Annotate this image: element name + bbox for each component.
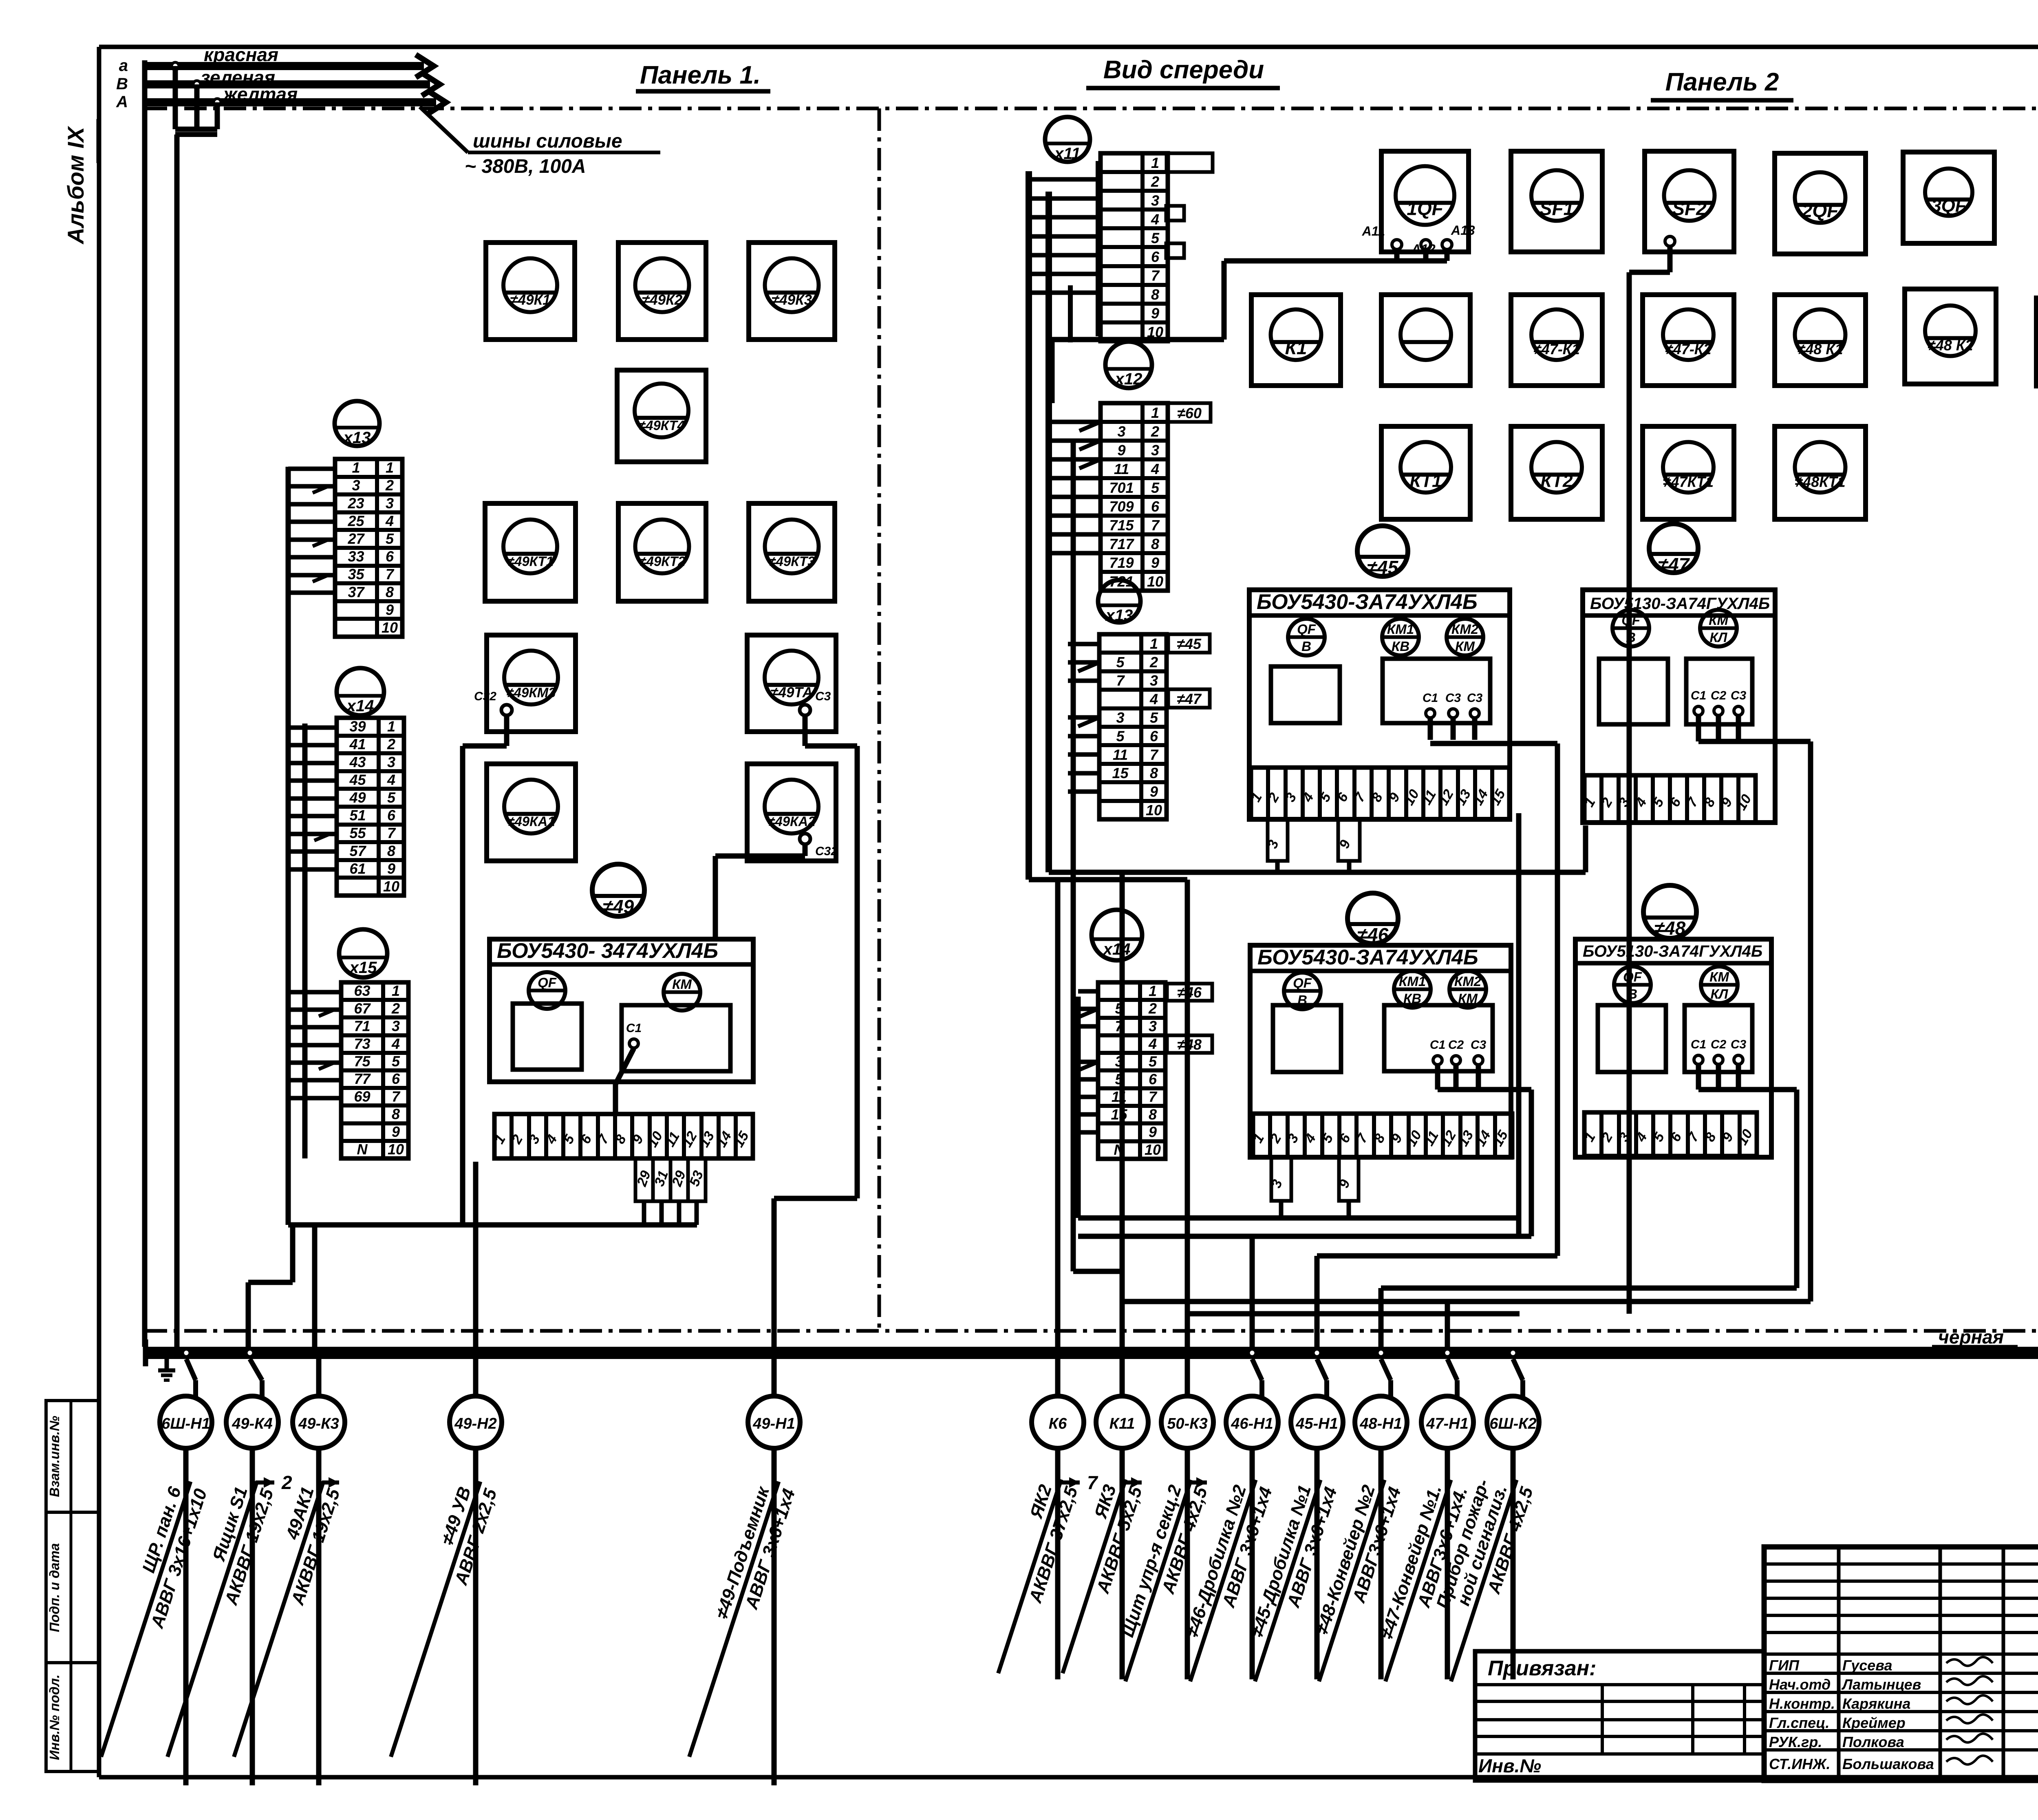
svg-text:С3: С3 xyxy=(1731,689,1747,702)
svg-text:9: 9 xyxy=(1149,1124,1157,1141)
svg-text:В: В xyxy=(1301,639,1311,654)
svg-text:57: 57 xyxy=(349,843,366,859)
svg-text:шины силовые: шины силовые xyxy=(473,130,622,152)
svg-text:701: 701 xyxy=(1109,479,1134,496)
svg-text:В: В xyxy=(116,75,128,93)
svg-text:≠49К1: ≠49К1 xyxy=(510,292,550,308)
svg-text:7: 7 xyxy=(1151,517,1160,534)
svg-text:49-Н2: 49-Н2 xyxy=(454,1415,497,1432)
svg-text:х13: х13 xyxy=(343,429,371,447)
svg-text:≠49К3: ≠49К3 xyxy=(772,292,812,308)
svg-text:46-Н1: 46-Н1 xyxy=(1231,1415,1273,1432)
svg-text:≠46: ≠46 xyxy=(1357,924,1389,945)
svg-text:49-Н1: 49-Н1 xyxy=(752,1415,795,1432)
svg-text:4: 4 xyxy=(1151,461,1159,477)
svg-text:Большакова: Большакова xyxy=(1842,1756,1934,1772)
svg-text:10: 10 xyxy=(383,878,399,895)
svg-text:≠48 К2: ≠48 К2 xyxy=(1928,337,1973,354)
svg-text:х14: х14 xyxy=(1103,940,1131,958)
svg-text:7: 7 xyxy=(1149,1088,1158,1105)
svg-text:С3: С3 xyxy=(1471,1038,1487,1052)
svg-text:6Ш-Н1: 6Ш-Н1 xyxy=(161,1415,210,1432)
svg-text:717: 717 xyxy=(1109,536,1134,552)
svg-text:С3: С3 xyxy=(1445,691,1461,705)
svg-text:75: 75 xyxy=(354,1053,371,1070)
svg-text:SF1: SF1 xyxy=(1540,198,1574,219)
svg-text:5: 5 xyxy=(1151,230,1160,247)
svg-text:БОУ5130-ЗА74ГУХЛ4Б: БОУ5130-ЗА74ГУХЛ4Б xyxy=(1590,595,1770,613)
svg-text:3: 3 xyxy=(1151,442,1159,459)
svg-text:47-Н1: 47-Н1 xyxy=(1426,1415,1469,1432)
svg-text:5: 5 xyxy=(1150,709,1158,726)
svg-text:61: 61 xyxy=(349,860,366,877)
svg-text:1: 1 xyxy=(386,459,394,476)
svg-text:ГИП: ГИП xyxy=(1769,1657,1800,1674)
svg-text:9: 9 xyxy=(1150,783,1158,800)
svg-text:С32: С32 xyxy=(474,690,496,703)
svg-text:Гусева: Гусева xyxy=(1842,1657,1892,1674)
svg-text:БОУ5430-ЗА74УХЛ4Б: БОУ5430-ЗА74УХЛ4Б xyxy=(1257,590,1478,614)
svg-text:С1: С1 xyxy=(1430,1038,1445,1052)
svg-text:8: 8 xyxy=(1151,286,1159,303)
svg-text:~ 380В, 100А: ~ 380В, 100А xyxy=(465,156,586,177)
svg-text:9: 9 xyxy=(1151,305,1159,322)
svg-text:≠48: ≠48 xyxy=(1654,918,1686,939)
svg-text:≠47: ≠47 xyxy=(1177,690,1202,707)
svg-text:Полкова: Полкова xyxy=(1842,1734,1904,1750)
svg-text:5: 5 xyxy=(1116,654,1125,671)
svg-text:8: 8 xyxy=(386,584,394,600)
svg-text:1QF: 1QF xyxy=(1407,198,1444,219)
svg-text:6: 6 xyxy=(387,807,396,824)
svg-text:2: 2 xyxy=(1151,423,1159,440)
svg-text:1: 1 xyxy=(1151,154,1159,171)
svg-text:≠45: ≠45 xyxy=(1177,635,1202,652)
svg-text:1: 1 xyxy=(352,459,360,476)
svg-text:≠49КТ3: ≠49КТ3 xyxy=(768,554,815,569)
svg-text:КМ: КМ xyxy=(1709,613,1729,628)
svg-text:6: 6 xyxy=(1151,249,1160,265)
svg-text:11: 11 xyxy=(1113,746,1128,763)
svg-text:КМ1: КМ1 xyxy=(1399,974,1426,989)
svg-text:≠49КТ2: ≠49КТ2 xyxy=(639,554,686,569)
svg-text:РУК.гр.: РУК.гр. xyxy=(1769,1734,1822,1750)
svg-text:9: 9 xyxy=(1151,554,1159,571)
svg-text:709: 709 xyxy=(1109,498,1134,515)
svg-text:11: 11 xyxy=(1114,461,1129,477)
svg-text:6: 6 xyxy=(392,1070,400,1087)
svg-text:6: 6 xyxy=(1149,1071,1157,1088)
svg-text:≠49К2: ≠49К2 xyxy=(642,292,683,308)
svg-text:4: 4 xyxy=(387,771,395,788)
svg-text:С1: С1 xyxy=(1423,691,1438,705)
svg-text:6: 6 xyxy=(1151,498,1160,515)
svg-text:8: 8 xyxy=(1149,1106,1157,1123)
svg-text:х11: х11 xyxy=(1054,145,1081,163)
svg-text:10: 10 xyxy=(388,1141,404,1158)
svg-text:3: 3 xyxy=(352,477,360,494)
svg-text:77: 77 xyxy=(354,1070,371,1087)
svg-text:8: 8 xyxy=(392,1106,400,1123)
svg-text:719: 719 xyxy=(1109,554,1134,571)
svg-text:≠48КТ1: ≠48КТ1 xyxy=(1795,473,1845,490)
svg-text:QF: QF xyxy=(1293,975,1312,991)
svg-text:45-Н1: 45-Н1 xyxy=(1295,1415,1338,1432)
svg-text:5: 5 xyxy=(1149,1053,1157,1070)
svg-text:Панель 2: Панель 2 xyxy=(1665,68,1779,96)
svg-text:К1: К1 xyxy=(1285,337,1307,358)
svg-text:41: 41 xyxy=(349,736,366,752)
svg-text:С3: С3 xyxy=(815,690,831,703)
svg-text:10: 10 xyxy=(382,619,398,636)
svg-text:Нач.отд: Нач.отд xyxy=(1769,1676,1831,1693)
svg-text:красная: красная xyxy=(204,44,278,65)
svg-text:Альбом IХ: Альбом IХ xyxy=(63,126,88,245)
svg-text:Карякина: Карякина xyxy=(1842,1695,1910,1712)
svg-text:Привязан:: Привязан: xyxy=(1488,1657,1596,1680)
svg-text:QF: QF xyxy=(538,975,557,990)
svg-text:71: 71 xyxy=(354,1018,370,1035)
svg-text:КМ2: КМ2 xyxy=(1451,622,1479,637)
svg-text:23: 23 xyxy=(347,495,364,512)
svg-text:КМ1: КМ1 xyxy=(1387,622,1414,637)
svg-text:≠47КТ1: ≠47КТ1 xyxy=(1663,473,1714,490)
svg-text:1: 1 xyxy=(1151,404,1159,421)
svg-text:Гл.спец.: Гл.спец. xyxy=(1769,1714,1829,1731)
svg-text:С32: С32 xyxy=(815,845,838,858)
svg-text:8: 8 xyxy=(1151,536,1159,552)
svg-text:9: 9 xyxy=(392,1123,400,1140)
svg-text:К6: К6 xyxy=(1049,1415,1067,1432)
svg-text:К11: К11 xyxy=(1109,1415,1135,1432)
svg-text:7: 7 xyxy=(1087,1472,1098,1493)
svg-text:5: 5 xyxy=(1116,728,1125,744)
svg-text:25: 25 xyxy=(347,512,364,529)
svg-text:37: 37 xyxy=(348,584,365,600)
svg-text:С1: С1 xyxy=(626,1021,642,1035)
svg-text:6Ш-К2: 6Ш-К2 xyxy=(1489,1415,1536,1432)
svg-text:≠49КА1: ≠49КА1 xyxy=(507,814,555,829)
svg-text:49: 49 xyxy=(349,789,366,806)
svg-text:≠49КТ4: ≠49КТ4 xyxy=(638,418,685,433)
svg-text:67: 67 xyxy=(354,1000,371,1017)
svg-text:SF2: SF2 xyxy=(1672,198,1707,219)
svg-text:3: 3 xyxy=(1150,672,1158,689)
svg-text:Инв.№ подл.: Инв.№ подл. xyxy=(47,1674,62,1760)
svg-text:7: 7 xyxy=(387,825,396,841)
svg-text:10: 10 xyxy=(1147,573,1163,590)
svg-text:1: 1 xyxy=(1150,635,1158,652)
svg-text:2: 2 xyxy=(387,736,395,752)
svg-text:4: 4 xyxy=(1151,211,1159,227)
svg-text:4: 4 xyxy=(1148,1035,1157,1052)
svg-text:5: 5 xyxy=(1151,479,1160,496)
svg-text:С1: С1 xyxy=(1691,689,1706,702)
svg-text:А: А xyxy=(116,93,128,111)
svg-text:QF: QF xyxy=(1623,969,1642,984)
svg-text:49-К3: 49-К3 xyxy=(298,1415,339,1432)
svg-text:КМ: КМ xyxy=(1455,639,1475,654)
svg-text:КМ2: КМ2 xyxy=(1454,974,1482,989)
svg-text:КТ2: КТ2 xyxy=(1541,471,1573,491)
svg-text:3: 3 xyxy=(1117,423,1125,440)
svg-text:х15: х15 xyxy=(349,959,377,977)
svg-text:БОУ5430- 3474УХЛ4Б: БОУ5430- 3474УХЛ4Б xyxy=(497,939,718,963)
svg-text:15: 15 xyxy=(1111,1106,1127,1123)
svg-text:≠49: ≠49 xyxy=(603,896,634,917)
svg-text:2: 2 xyxy=(281,1472,292,1493)
svg-text:3QF: 3QF xyxy=(1931,196,1967,216)
svg-text:63: 63 xyxy=(354,982,370,999)
svg-text:4: 4 xyxy=(391,1035,400,1052)
svg-text:2: 2 xyxy=(391,1000,400,1017)
svg-text:КЛ: КЛ xyxy=(1710,630,1728,645)
svg-text:≠47: ≠47 xyxy=(1658,554,1690,575)
svg-text:39: 39 xyxy=(349,718,366,735)
svg-text:≠49ТА: ≠49ТА xyxy=(770,684,812,700)
svg-text:6: 6 xyxy=(386,548,394,565)
svg-text:Подп. и дата: Подп. и дата xyxy=(47,1543,62,1632)
svg-text:х12: х12 xyxy=(1114,370,1143,388)
svg-text:Латынцев: Латынцев xyxy=(1841,1676,1921,1693)
svg-text:5: 5 xyxy=(392,1053,400,1070)
svg-text:33: 33 xyxy=(348,548,364,565)
svg-text:45: 45 xyxy=(349,771,366,788)
svg-text:Н.контр.: Н.контр. xyxy=(1769,1695,1835,1712)
svg-text:Взам.инв.№: Взам.инв.№ xyxy=(47,1416,62,1497)
svg-text:КВ: КВ xyxy=(1392,639,1409,654)
svg-text:6: 6 xyxy=(1150,728,1158,744)
svg-text:х14: х14 xyxy=(346,697,374,715)
svg-text:N: N xyxy=(357,1141,368,1158)
svg-text:С2: С2 xyxy=(1711,1038,1727,1051)
svg-text:48-Н1: 48-Н1 xyxy=(1359,1415,1402,1432)
svg-text:Вид спереди: Вид спереди xyxy=(1103,56,1264,84)
svg-text:Панель 1.: Панель 1. xyxy=(640,61,761,89)
svg-text:А11: А11 xyxy=(1362,224,1385,238)
svg-text:9: 9 xyxy=(1117,442,1125,459)
svg-text:3: 3 xyxy=(387,754,395,770)
svg-text:2QF: 2QF xyxy=(1802,200,1839,221)
svg-text:а: а xyxy=(119,57,128,75)
svg-text:≠49КМ3: ≠49КМ3 xyxy=(507,685,556,700)
svg-text:QF: QF xyxy=(1297,622,1316,637)
svg-text:БОУ5130-ЗА74ГУХЛ4Б: БОУ5130-ЗА74ГУХЛ4Б xyxy=(1583,942,1762,960)
svg-text:С2: С2 xyxy=(1711,689,1727,702)
svg-text:С2: С2 xyxy=(1448,1038,1464,1052)
svg-text:3: 3 xyxy=(1116,709,1124,726)
svg-text:3: 3 xyxy=(1151,192,1159,209)
svg-text:≠47-К2: ≠47-К2 xyxy=(1665,341,1712,357)
svg-text:Инв.№: Инв.№ xyxy=(1478,1755,1541,1776)
svg-text:10: 10 xyxy=(1145,1141,1161,1158)
svg-text:49-К4: 49-К4 xyxy=(232,1415,272,1432)
svg-text:А13: А13 xyxy=(1451,223,1475,238)
svg-text:5: 5 xyxy=(386,530,394,547)
svg-text:≠45: ≠45 xyxy=(1367,557,1399,578)
svg-text:черная: черная xyxy=(1938,1326,2004,1348)
svg-text:73: 73 xyxy=(354,1035,370,1052)
svg-text:≠47-К1: ≠47-К1 xyxy=(1533,341,1580,357)
svg-text:3: 3 xyxy=(1149,1018,1157,1035)
svg-text:8: 8 xyxy=(387,843,395,859)
svg-text:х13: х13 xyxy=(1105,607,1133,624)
svg-text:≠49КА2: ≠49КА2 xyxy=(768,814,816,829)
svg-text:7: 7 xyxy=(1116,672,1125,689)
svg-text:КЛ: КЛ xyxy=(1711,986,1729,1002)
svg-text:10: 10 xyxy=(1146,802,1162,818)
svg-text:5: 5 xyxy=(387,789,396,806)
svg-text:КМ: КМ xyxy=(672,977,692,992)
svg-text:8: 8 xyxy=(1150,765,1158,781)
svg-text:КМ: КМ xyxy=(1709,969,1729,984)
svg-text:9: 9 xyxy=(387,860,395,877)
svg-text:1: 1 xyxy=(387,718,395,735)
svg-text:27: 27 xyxy=(347,530,365,547)
svg-text:7: 7 xyxy=(386,566,395,582)
svg-text:3: 3 xyxy=(386,495,394,512)
svg-text:9: 9 xyxy=(386,601,394,618)
svg-text:7: 7 xyxy=(392,1088,401,1105)
svg-text:4: 4 xyxy=(1149,691,1158,708)
svg-text:69: 69 xyxy=(354,1088,370,1105)
svg-text:СТ.ИНЖ.: СТ.ИНЖ. xyxy=(1769,1756,1831,1772)
svg-text:35: 35 xyxy=(348,566,364,582)
svg-text:55: 55 xyxy=(349,825,366,841)
svg-text:КТ1: КТ1 xyxy=(1410,471,1442,491)
svg-text:С1: С1 xyxy=(1691,1038,1706,1051)
svg-text:≠60: ≠60 xyxy=(1177,405,1202,421)
svg-text:БОУ5430-ЗА74УХЛ4Б: БОУ5430-ЗА74УХЛ4Б xyxy=(1257,946,1478,969)
svg-text:1: 1 xyxy=(392,982,400,999)
svg-text:С3: С3 xyxy=(1467,691,1483,705)
svg-text:2: 2 xyxy=(385,477,394,494)
svg-text:7: 7 xyxy=(1150,746,1159,763)
svg-text:Креймер: Креймер xyxy=(1842,1714,1906,1731)
svg-text:50-К3: 50-К3 xyxy=(1167,1415,1207,1432)
svg-text:1: 1 xyxy=(1149,982,1157,999)
svg-text:715: 715 xyxy=(1109,517,1134,534)
svg-text:3: 3 xyxy=(392,1018,400,1035)
svg-text:51: 51 xyxy=(349,807,366,824)
svg-text:43: 43 xyxy=(349,754,366,770)
svg-text:15: 15 xyxy=(1112,765,1129,781)
svg-text:2: 2 xyxy=(1151,173,1159,190)
svg-text:желтая: желтая xyxy=(222,84,298,105)
svg-text:2: 2 xyxy=(1148,1000,1157,1017)
svg-text:С3: С3 xyxy=(1731,1038,1747,1051)
svg-text:2: 2 xyxy=(1149,654,1158,671)
svg-text:≠49КТ1: ≠49КТ1 xyxy=(507,554,554,569)
svg-text:≠48 К1: ≠48 К1 xyxy=(1798,341,1843,357)
svg-text:4: 4 xyxy=(385,512,394,529)
svg-text:7: 7 xyxy=(1151,267,1160,284)
